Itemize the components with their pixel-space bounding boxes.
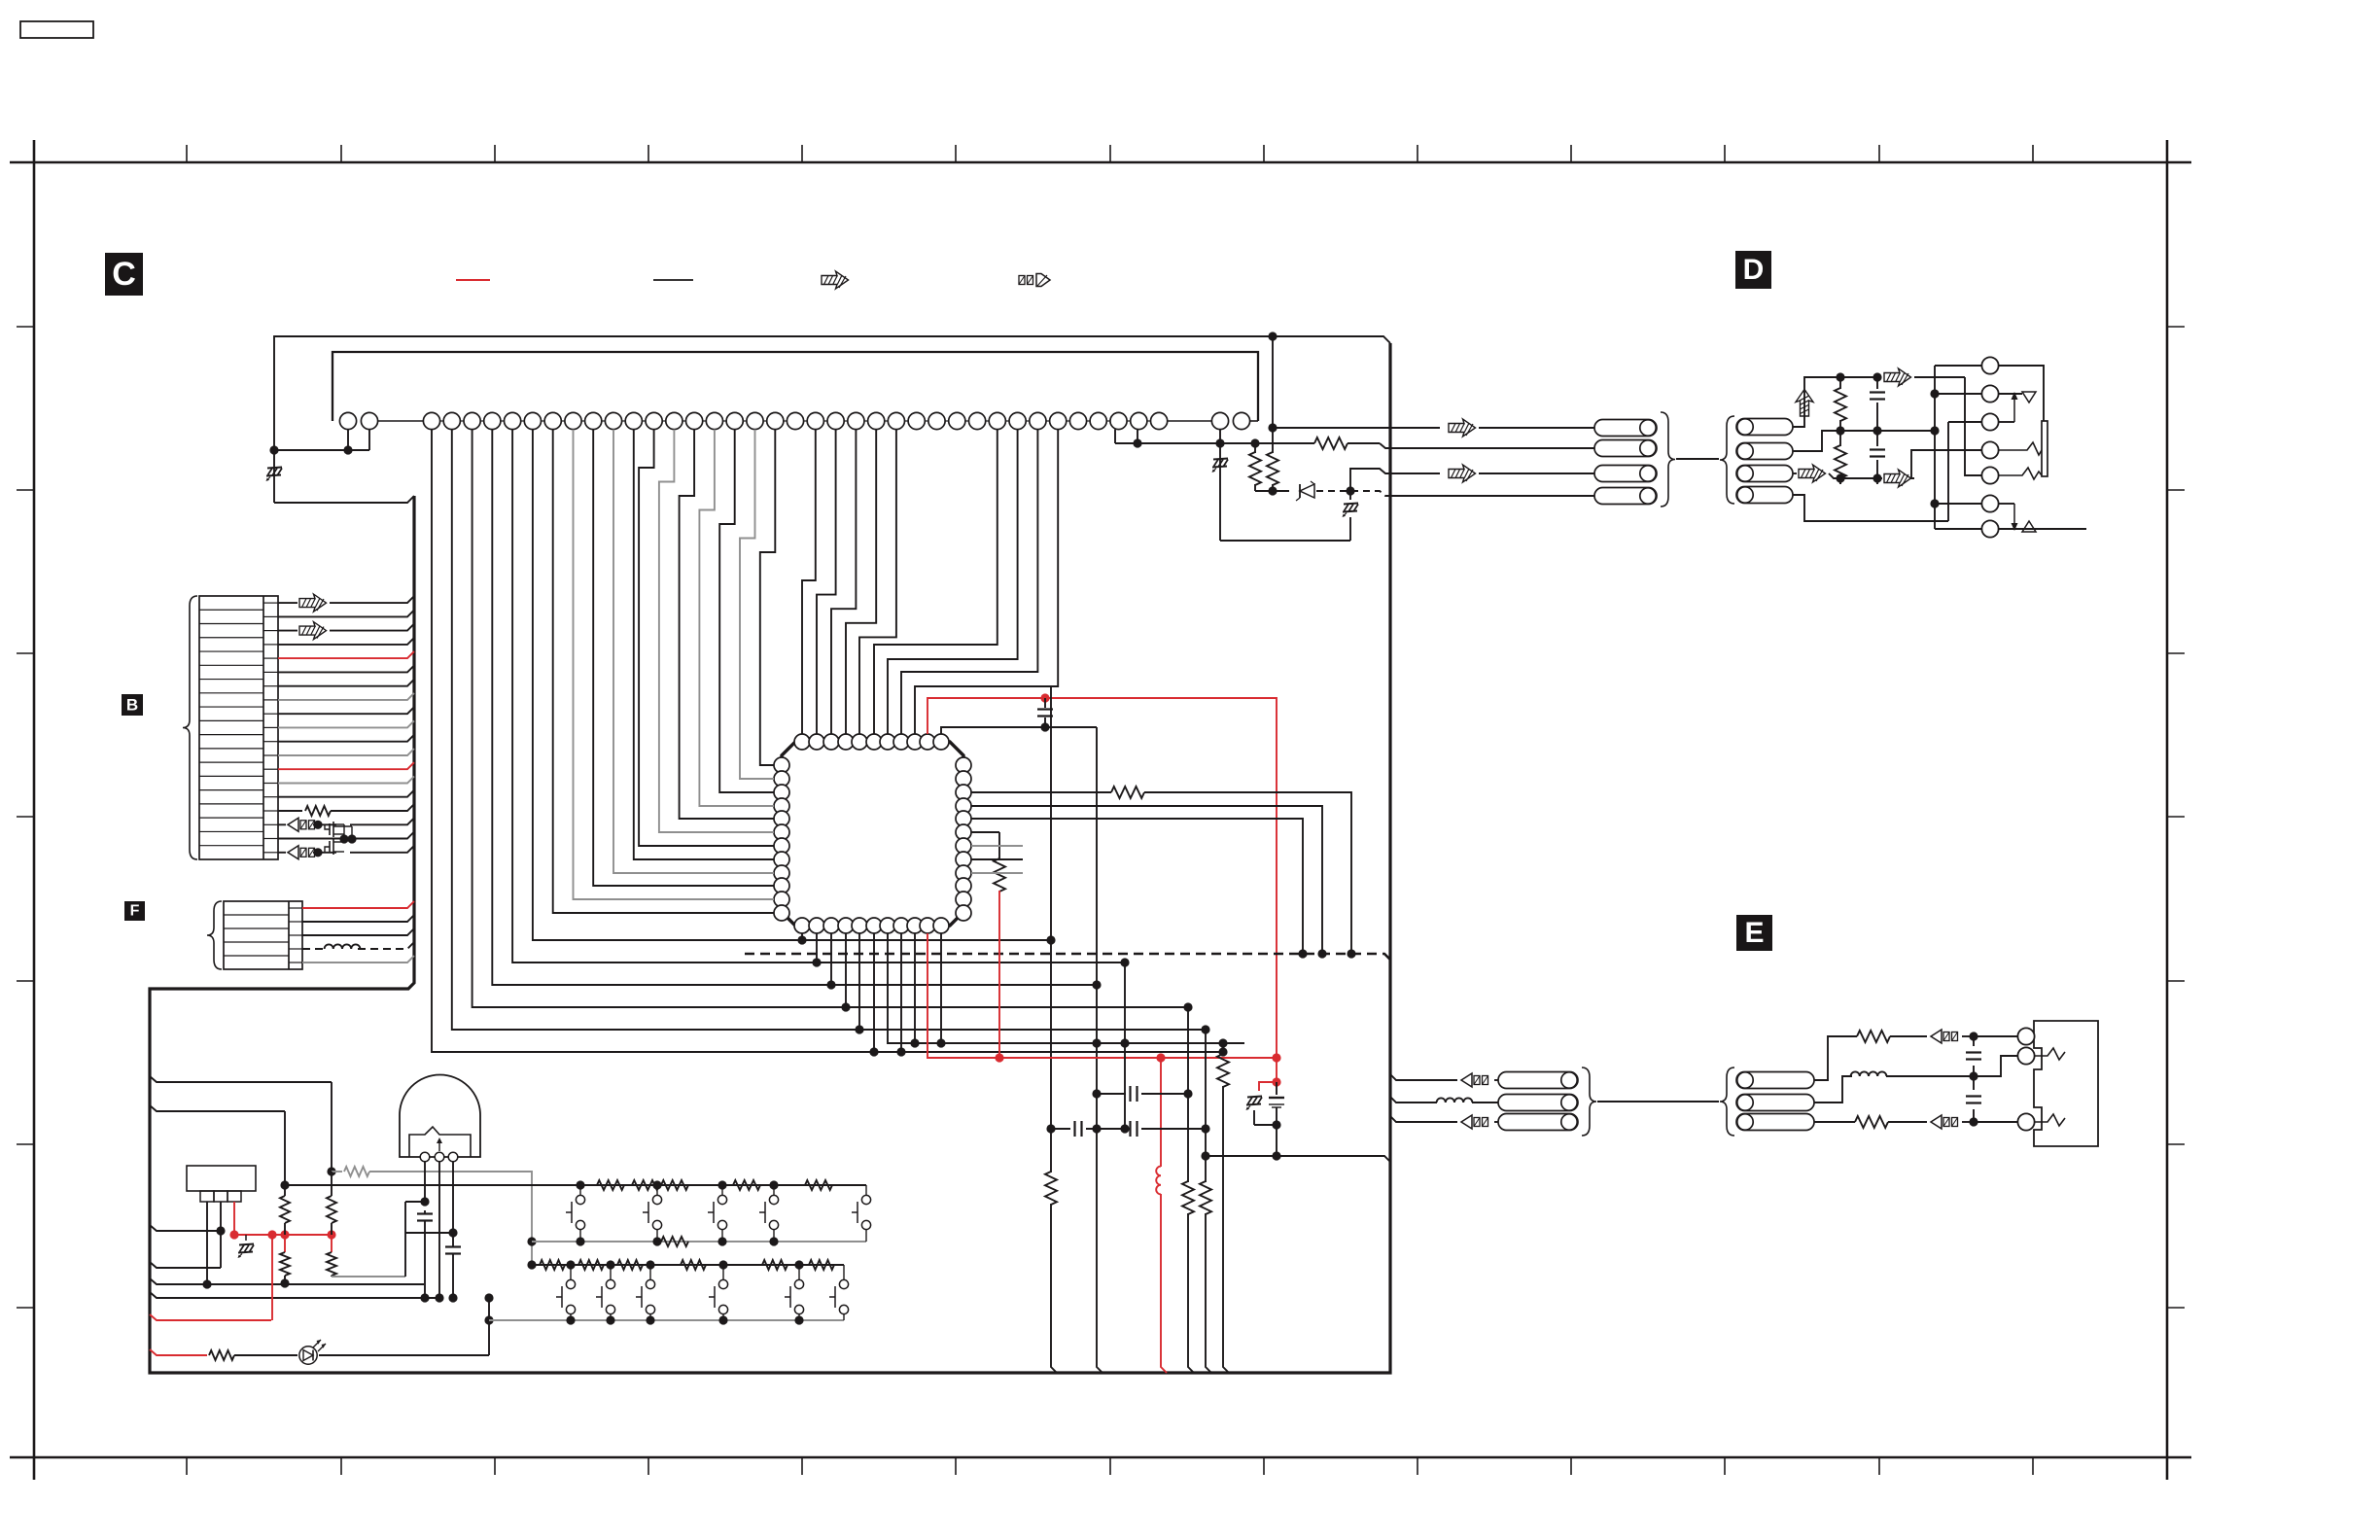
jack J1 c6 arrow down [1999,503,2014,505]
gray net resistor R40 [332,1171,342,1172]
resistor R41 [331,1172,332,1196]
wire B row 9 [263,713,278,715]
connector plug D-in row1 [1736,419,1793,436]
connector plug D-out row3 [1594,466,1657,482]
wire U1 right pin 7 [971,845,1023,847]
wire U1 bottom pin 6 drop [873,933,875,1052]
connector E-in row1 [1736,1072,1814,1089]
switch SA3 [721,1185,723,1195]
wire branch v417 [405,1201,425,1203]
brace E-out [1582,1067,1596,1136]
red wire to decoupling cluster [1276,1058,1277,1082]
wire U1 right pin 5 [971,819,1303,954]
wire D row2 mid bus [1793,431,1935,451]
connector plug D-out row1 [1594,420,1657,437]
connector plug D-out row2 [1594,440,1657,457]
section label C [105,253,143,296]
wire vertical 1157 [1124,962,1126,1129]
connector plug D-out row4 [1594,488,1657,505]
wire F row 2 [302,915,414,922]
wire edge red 1358 [150,1314,271,1320]
wire U1 bottom pin 2 drop [816,933,818,962]
resistor R30 [1839,377,1841,389]
key row B resistors [540,1260,565,1270]
wire exit D3 [1350,469,1390,491]
RX1 base [409,1127,471,1157]
wire top pin to U1 top pin 1 [802,430,816,734]
wire ground to bus [274,496,414,503]
wire cluster to board edge [1277,1125,1390,1162]
switch SA5 [865,1185,867,1195]
chassis ground G3 [1247,1097,1262,1098]
wire top pin to U1 left pin 6 [659,430,774,832]
chassis ground G4 [1349,491,1351,500]
arrow D top [1884,368,1911,386]
RX1 pin 3 wire capacitor C51 [452,1161,454,1233]
chassis ground G2 [1219,443,1221,541]
wire B row 14 [263,783,278,785]
node deep row junctions [1218,1047,1227,1056]
top connector pin row [339,412,356,429]
wire B row 10 [263,726,278,728]
wire E exit 3 [1390,1116,1457,1122]
U1 top pins [794,734,810,750]
pin row link wires [378,420,424,422]
resistor R10 [1314,437,1347,449]
switch SB4 [722,1265,724,1279]
wire staircase to U1 top pin 7 [888,430,1018,734]
wire top pin to U1 left pin 3 [719,430,774,792]
brace D-out [1661,412,1675,507]
capacitor C32 [1876,431,1878,446]
wire B row 3 [263,630,278,632]
wire pin stub k36 [1137,430,1138,443]
red supply wire from U1 top pin 10 [927,698,1277,1058]
wire harness D row3 [1390,472,1440,474]
svg-text:E: E [1744,917,1764,949]
capacitor C10 on red bus [1044,698,1046,708]
key row B bottom bus [489,1319,844,1321]
wire top pin to lower bus row 3 [472,430,1188,1007]
wire edge 1113 [150,1076,332,1082]
LED1 [299,1347,317,1364]
wire jack bus C [1947,422,1949,521]
jack J2 contact blades [2035,1048,2065,1060]
headphone jack J1 contacts [1981,357,1998,373]
section label E [1736,915,1772,951]
red riser [271,1235,273,1320]
wire E row3 with resistor [1814,1121,1855,1123]
wire U1 bottom pin 11 drop [940,933,942,1043]
svg-text:C: C [112,256,136,293]
wire top pin to U1 left pin 8 [634,430,774,859]
wire vertical from top line [1272,336,1274,453]
wire to jack J2 c2 [1974,1056,2026,1076]
chassis ground top-left [273,450,275,503]
red wire U1 bottom pin 10 [927,933,1277,1058]
wire top pin to U1 left pin 2 [740,430,774,779]
LED power wire [206,1354,208,1356]
board outline thick [150,343,1390,1373]
wire B row 6 [263,671,278,673]
wire B row 11 [263,741,278,743]
pin1 pin2 ground wires [347,430,349,450]
key row B top bus [532,1264,844,1266]
wire edge 1335 [150,1292,438,1298]
brace E-in [1720,1067,1734,1136]
wire pin stub k35 [1114,430,1116,443]
border frame [10,161,2191,164]
resistor R42 [284,1185,286,1196]
wire vertical with red inductor [1160,1058,1162,1167]
resistor R11 [1254,443,1256,453]
wire B row 4 [263,644,278,646]
wire top pin to U1 left pin 5 [680,430,774,819]
wire edge red 1394 [150,1349,207,1355]
switch SB6 [843,1265,845,1279]
wire E exit 1 [1390,1074,1457,1080]
jack J1 c1 wire to sleeve [1999,366,2044,421]
connector plug D-in row3 [1736,466,1793,482]
U1 right pins [956,757,971,773]
component X1 body [187,1166,256,1191]
wire U1 bottom pin 4 drop [845,933,847,1007]
capacitor C40 [1973,1036,1975,1046]
jack J2 contacts [2017,1028,2034,1044]
wire U1 right pin 4 [971,806,1322,954]
X1 pin 2 wire [220,1202,222,1268]
IR receiver RX1 dome [400,1075,480,1158]
wire U1 bottom pin 3 drop [830,933,832,985]
wire F row 4 inductor dashed [302,948,327,950]
connector plug D-in row4 [1736,487,1793,504]
X1 pin 1 wire [206,1202,208,1284]
wire B row 2 [263,615,278,617]
jack J1 c4 contact [1999,442,2042,455]
U1 bottom pins [794,918,810,933]
wire top pin to U1 left pin 10 [593,430,774,886]
wire top pin to lower bus row 5 [512,430,1125,962]
wire top pin to lower bus row 6 [533,430,1051,940]
switch SB5 [798,1265,800,1279]
wire long vertical drop A with resistor [1050,686,1052,1172]
black bus from U1 top pin 11 [941,727,1097,734]
legend shielded-arrow symbol [822,271,849,289]
connector F body [224,901,302,969]
wire to jack J2 c1 [1974,1035,2026,1037]
section label B [122,694,143,716]
arrow E row1 [1931,1030,1942,1043]
arrow E row3 [1931,1115,1942,1129]
X1 pin 3 wire red [233,1202,235,1235]
connector plug D-in row2 [1736,443,1793,460]
connector E-out row1 [1498,1072,1578,1089]
capacitor C41 [1973,1076,1975,1090]
wire branch 1268 [405,1232,453,1234]
connector B body [199,596,278,859]
wire jack bus A [1934,366,1936,529]
microcontroller U1 body [782,742,963,926]
key row A bottom bus [532,1241,866,1242]
wire top pin to U1 left pin 1 [760,430,776,765]
wire top pin to U1 top pin 3 [831,430,856,734]
wire top pin to U1 left pin 11 [574,430,775,899]
wire D row3 bottom bus [1793,472,1797,474]
connector E-in row2 [1736,1095,1814,1111]
resistor R31 [1839,431,1841,446]
svg-text:F: F [130,903,140,920]
wire jack c1 [1935,365,1981,367]
wire staircase to U1 top pin 8 [901,430,1037,734]
wire edge 1321 [150,1278,424,1284]
wire D row4 to bus C [1793,495,1948,521]
wire pair pin stub [1219,430,1221,443]
keyscan vertical V503 [488,1298,490,1355]
wire D row1 to top bus [1793,377,1877,427]
wire edge 1143 [150,1105,285,1111]
wire harness D row1 [1390,427,1440,429]
wire top pin to U1 left pin 12 [553,430,774,913]
svg-text:B: B [126,696,138,715]
wire U1 right pin 3 with resistor [971,791,1111,793]
wire B row 8 [263,699,278,701]
wire top pin to U1 top pin 5 [859,430,896,734]
wire edge 1304 [150,1262,221,1268]
wire E exit 2 inductor [1390,1097,1437,1102]
switch SA4 [773,1185,775,1195]
resistor R44 [284,1235,286,1252]
wire edge 1266 [150,1225,221,1231]
wire B row 13 [263,768,278,770]
legend arrow-with-squares symbol [1019,276,1025,285]
wire D to jack c4 [1911,450,1981,478]
brace F [207,901,222,969]
wire jack c3 [1948,421,1981,423]
board outline top wire [274,336,1390,450]
wire U1 bottom pin 8 drop [900,933,902,1052]
legend red wire sample [456,279,490,281]
key row A resistors [597,1180,624,1190]
wire F row 1 red [302,901,414,908]
resistor R20 [1187,1007,1189,1182]
wire top pin to lower bus row 2 [452,430,1206,1030]
wire to jack J2 c3 [1974,1121,2026,1123]
transistor Q1 [325,824,330,829]
wire U1 bottom pin 1 drop [801,933,803,940]
connector E-out row3 [1498,1114,1578,1131]
key row A top bus [285,1184,866,1186]
wire top pin to U1 left pin 4 [699,430,774,806]
switch SA2 [656,1185,658,1195]
wire E row2 with inductor [1814,1076,1852,1102]
wire harness D row4 [1390,495,1594,497]
switch SB1 [570,1265,572,1279]
net bus 456 [1115,442,1314,444]
wire U1 right pin 9 [971,872,1023,874]
jack J1 switch arrow up [1999,393,2022,395]
wire staircase to U1 top pin 9 [915,430,1058,734]
brace B [183,596,197,859]
svg-text:D: D [1743,254,1765,286]
wire B row 12 [263,754,278,756]
jack J1 c5 contact [1999,468,2042,479]
wire B row 5 [263,657,278,659]
resistor R21 [1205,1030,1207,1182]
capacitor row upper [1097,1093,1126,1095]
wire D link [1676,458,1719,460]
RX1 terminals [420,1152,430,1162]
jack J1 c3 wire [1999,421,2014,423]
wire harness D row2 [1390,447,1594,449]
jack J2 body [2034,1021,2098,1146]
wire top pin to lower bus row 1 [432,430,1223,1052]
jack J1 c7 wire [1999,528,2086,530]
wire cluster stub left [1206,1155,1277,1157]
inner connector wire [332,352,1258,421]
arrow E3 [1461,1115,1472,1129]
wire exit D1 [1273,427,1390,429]
wire staircase to U1 top pin 6 [874,430,997,734]
resistor R22 [1222,1043,1224,1055]
switch SB3 [649,1265,651,1279]
wire B row 18 [263,838,278,840]
wire top pin to U1 left pin 9 [613,430,774,873]
connector E-out row2 [1498,1095,1578,1111]
wire B row 19 [263,852,278,854]
resistor R43 [331,1235,332,1252]
shield bus dashed [745,954,1390,960]
section label D [1735,251,1771,289]
brace D-in [1720,416,1734,504]
arrow E1 [1461,1073,1472,1087]
wire U1 bottom pin 5 drop [858,933,860,1030]
gray wire to v417 [332,1276,405,1277]
wire B row 1 [263,602,278,604]
wire B row 17 [263,823,278,825]
wire long vertical drop B [1097,727,1102,1373]
arrow D up [1796,390,1813,417]
wire B row 16 [263,810,278,812]
capacitor C30 electrolytic [1276,1082,1277,1095]
wire U1 right pin 8 [971,858,1023,860]
diode D1 dashed net [1255,490,1289,492]
wire top pin to lower bus row 4 [492,430,1097,985]
wire U1 right pin 6 red resistor chain [971,831,999,833]
transistor Q2 [325,847,330,853]
RX1 pin 2 wire [438,1161,440,1298]
wire U1 bottom pin 9 drop [914,933,916,1043]
wire v341 [331,1082,332,1172]
chassis ground G5 [245,1235,247,1241]
harness arrow 1 [1449,419,1476,437]
wire E link [1597,1101,1719,1102]
wire B row 7 [263,685,278,687]
switch SB2 [610,1265,612,1279]
wire F row 5 gray [302,956,414,962]
wire E row1 with resistor [1814,1036,1857,1080]
wire v293 [284,1111,286,1185]
wire top pin to U1 top pin 4 [846,430,876,734]
capacitor row lower [1051,1128,1070,1130]
harness arrow 2 [1449,465,1476,482]
capacitor C31 [1876,377,1878,389]
wire U1 bottom pin 7 row [888,933,1244,1043]
connector E-in row3 [1736,1114,1814,1131]
wire jack c7 lead [1935,528,1981,530]
section label F [124,901,145,921]
wire D to jack c5 [1965,377,1981,475]
U1 left pins [774,757,789,773]
wire jack c6 lead [1935,503,1981,505]
arrow D bottom [1884,470,1911,487]
legend black wire sample [653,279,693,281]
wire B row 15 [263,796,278,798]
jack J1 body bar [2042,421,2047,476]
wire top pin to U1 left pin 7 [639,430,774,846]
wire F row 3 [302,928,414,935]
wire top pin to U1 top pin 2 [817,430,836,734]
title box [20,21,93,38]
resistor R12 [1267,452,1278,485]
RX1 pin 1 wire capacitor C50 [424,1161,426,1202]
wire jack c2 [1935,393,1981,395]
switch SA1 [579,1185,581,1195]
red power net [234,1234,332,1236]
